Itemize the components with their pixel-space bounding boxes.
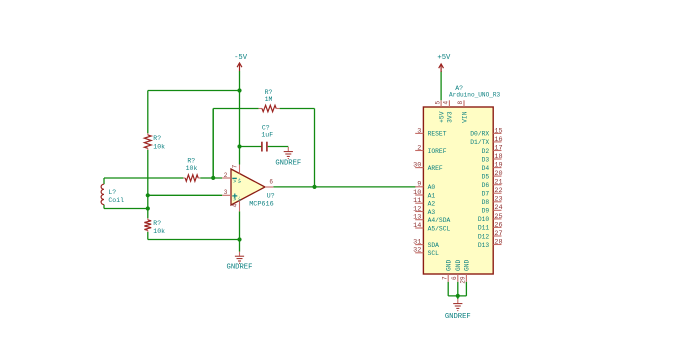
pin 2 (inverting input) <box>222 177 231 179</box>
pin 24 D9 (Arduino right) <box>482 204 503 214</box>
pin 5 +5V (Arduino top) <box>434 100 445 123</box>
svg-text:D0/RX: D0/RX <box>470 131 489 138</box>
svg-text:GND: GND <box>446 259 453 271</box>
ground GNDREF at op-amp <box>227 252 253 272</box>
wire cap right to GNDREF <box>268 146 289 148</box>
svg-text:25: 25 <box>494 213 502 221</box>
svg-text:18: 18 <box>494 153 502 161</box>
svg-text:5: 5 <box>434 101 441 105</box>
pin 13 A4/SDA (Arduino left) <box>413 214 450 224</box>
svg-text:4: 4 <box>443 101 450 105</box>
svg-text:D8: D8 <box>482 199 490 206</box>
svg-text:6: 6 <box>451 276 458 280</box>
ground GNDREF at capacitor <box>275 147 301 167</box>
wire feedback vertical right <box>314 109 316 187</box>
svg-text:L?: L? <box>108 189 116 196</box>
inductor L? Coil <box>101 184 124 204</box>
svg-text:1M: 1M <box>265 96 273 103</box>
svg-text:D6: D6 <box>482 182 490 189</box>
junction non-inverting node <box>146 193 150 197</box>
pin 17 D2 (Arduino right) <box>482 144 503 154</box>
pin 10 A1 (Arduino left) <box>413 189 435 199</box>
pin 3 RESET (Arduino left) <box>415 127 447 137</box>
pin 6 (output) <box>265 186 273 188</box>
svg-text:GND: GND <box>455 259 462 271</box>
svg-text:GNDREF: GNDREF <box>275 159 301 167</box>
pin 21 D6 (Arduino right) <box>482 179 503 189</box>
svg-text:31: 31 <box>413 239 421 247</box>
pin 22 D7 (Arduino right) <box>482 187 503 197</box>
svg-text:10: 10 <box>413 189 421 197</box>
ground GNDREF below Arduino <box>445 299 471 321</box>
pin 26 D11 (Arduino right) <box>478 221 503 231</box>
svg-text:GND: GND <box>464 259 471 271</box>
pin 23 D8 (Arduino right) <box>482 196 503 206</box>
wire Arduino GND pin 7 down <box>447 282 449 296</box>
svg-text:R?: R? <box>153 220 161 227</box>
wire left branch vertical bottom <box>147 232 149 240</box>
pin 20 D5 (Arduino right) <box>482 170 503 180</box>
svg-text:7: 7 <box>232 164 239 168</box>
wire -5V symbol down to junction <box>239 71 241 91</box>
pin 7 (V+) <box>239 165 241 174</box>
svg-text:19: 19 <box>494 162 502 170</box>
svg-text:A4/SDA: A4/SDA <box>428 217 451 224</box>
wire Arduino GND pin 29 down <box>465 282 467 296</box>
svg-text:15: 15 <box>494 127 502 135</box>
wire Arduino GND pin 6 down <box>457 282 459 296</box>
power symbol +5V <box>437 54 451 72</box>
wire left branch vertical top <box>147 91 149 134</box>
svg-text:IOREF: IOREF <box>428 148 447 155</box>
junction output node <box>312 185 316 189</box>
wire coil bottom horizontal <box>104 208 148 210</box>
svg-text:22: 22 <box>494 187 502 195</box>
pin 4 3V3 (Arduino top) <box>443 100 454 123</box>
svg-text:D10: D10 <box>478 216 490 223</box>
svg-text:SDA: SDA <box>428 242 440 249</box>
pin 2 IOREF (Arduino left) <box>415 144 447 154</box>
svg-text:A0: A0 <box>428 184 436 191</box>
pin 4 (V-) <box>239 201 241 212</box>
svg-text:AREF: AREF <box>428 165 443 172</box>
pin 25 D10 (Arduino right) <box>478 213 503 223</box>
wire feedback top left horizontal <box>213 108 258 110</box>
resistor R? 10k input (horizontal) <box>183 158 200 182</box>
svg-text:12: 12 <box>413 205 421 213</box>
svg-text:RESET: RESET <box>428 131 447 138</box>
pin 3 (non-inverting input) <box>222 194 231 196</box>
svg-text:24: 24 <box>494 204 502 212</box>
svg-text:11: 11 <box>413 197 421 205</box>
svg-text:2: 2 <box>224 172 228 179</box>
wire feedback vertical left <box>212 109 214 178</box>
svg-text:Arduino_UNO_R3: Arduino_UNO_R3 <box>449 92 501 99</box>
svg-text:30: 30 <box>413 162 421 170</box>
wire cap left <box>240 146 262 148</box>
pin 27 D12 (Arduino right) <box>478 230 503 240</box>
svg-text:21: 21 <box>494 179 502 187</box>
svg-text:17: 17 <box>494 144 502 152</box>
svg-text:14: 14 <box>413 222 421 230</box>
pin 16 D1/TX (Arduino right) <box>470 136 502 146</box>
svg-text:+5V: +5V <box>437 54 451 62</box>
svg-text:GNDREF: GNDREF <box>445 313 471 321</box>
power symbol -5V <box>234 54 248 71</box>
svg-text:-5V: -5V <box>234 54 248 62</box>
svg-text:23: 23 <box>494 196 502 204</box>
pin 19 D4 (Arduino right) <box>482 162 503 172</box>
svg-text:A2: A2 <box>428 201 436 208</box>
svg-text:D9: D9 <box>482 208 490 215</box>
svg-text:D5: D5 <box>482 173 490 180</box>
svg-text:3V3: 3V3 <box>447 111 454 123</box>
svg-text:9: 9 <box>417 181 421 189</box>
svg-text:A3: A3 <box>428 209 436 216</box>
op-amp U? MCP616 <box>222 164 275 211</box>
svg-text:V-: V- <box>239 196 243 201</box>
svg-text:4: 4 <box>232 203 239 207</box>
svg-text:8: 8 <box>457 101 464 105</box>
svg-text:10k: 10k <box>186 165 198 172</box>
svg-text:D11: D11 <box>478 225 490 232</box>
wire GND bus horizontal <box>448 295 466 297</box>
svg-text:MCP616: MCP616 <box>249 201 273 209</box>
svg-text:>: > <box>233 197 236 203</box>
pin 28 D13 (Arduino right) <box>478 238 503 248</box>
svg-text:10k: 10k <box>153 228 165 235</box>
svg-text:28: 28 <box>494 238 502 246</box>
pin 18 D3 (Arduino right) <box>482 153 503 163</box>
pin 31 SDA (Arduino left) <box>413 239 439 249</box>
wire op-amp output to Arduino A0 <box>273 186 415 188</box>
pin 32 SCL (Arduino left) <box>413 247 439 257</box>
svg-text:13: 13 <box>413 214 421 222</box>
pin 12 A3 (Arduino left) <box>413 205 435 215</box>
pin 15 D0/RX (Arduino right) <box>470 127 502 137</box>
svg-text:D12: D12 <box>478 233 490 240</box>
svg-text:C?: C? <box>262 124 270 131</box>
svg-text:20: 20 <box>494 170 502 178</box>
svg-text:3: 3 <box>224 189 228 196</box>
svg-text:26: 26 <box>494 221 502 229</box>
svg-text:VIN: VIN <box>461 111 468 123</box>
wire input resistor to op-amp pin 2 <box>200 177 222 179</box>
junction inverting input node <box>211 176 215 180</box>
svg-text:16: 16 <box>494 136 502 144</box>
pin 11 A2 (Arduino left) <box>413 197 435 207</box>
svg-text:R?: R? <box>265 89 273 96</box>
junction cap tap <box>237 144 241 148</box>
svg-text:Coil: Coil <box>108 197 124 204</box>
pin 8 VIN (Arduino top) <box>457 100 468 123</box>
resistor R? 10k top-left <box>144 133 165 150</box>
wire feedback top right horizontal <box>280 108 315 110</box>
svg-text:U?: U? <box>267 192 275 199</box>
junction -5V rail <box>237 88 241 92</box>
svg-text:>: > <box>233 179 236 185</box>
svg-text:+5V: +5V <box>438 111 445 123</box>
wire coil top to input resistor <box>104 177 183 179</box>
svg-text:6: 6 <box>269 179 273 186</box>
svg-text:29: 29 <box>460 276 467 284</box>
pin 9 A0 (Arduino left) <box>415 181 435 191</box>
pin 29 GND (Arduino bottom) <box>460 259 471 283</box>
svg-text:R?: R? <box>187 158 195 165</box>
svg-text:D2: D2 <box>482 148 490 155</box>
junction coil bottom node <box>146 206 150 210</box>
svg-text:D4: D4 <box>482 165 490 172</box>
capacitor C? 1uF <box>261 124 273 151</box>
svg-text:D13: D13 <box>478 242 490 249</box>
pin 6 GND (Arduino bottom) <box>451 259 462 281</box>
svg-text:2: 2 <box>417 144 421 152</box>
svg-text:R?: R? <box>153 135 161 142</box>
svg-text:7: 7 <box>441 276 448 280</box>
svg-text:V+: V+ <box>239 178 243 184</box>
pin 7 GND (Arduino bottom) <box>441 259 452 281</box>
wire top horizontal -5V rail <box>148 90 240 92</box>
wire bottom horizontal to op-amp V- net <box>148 239 240 241</box>
wire node to op-amp pin 3 <box>148 194 222 196</box>
wire -5V vertical down to op-amp V+ pin <box>239 91 241 165</box>
resistor R? 1M feedback <box>259 89 280 112</box>
svg-text:SCL: SCL <box>428 250 440 257</box>
svg-text:D3: D3 <box>482 156 490 163</box>
resistor R? 10k bottom-left <box>144 218 165 235</box>
wire +5V symbol to Arduino 5V pin <box>440 71 442 100</box>
wire GND bus to GNDREF <box>457 296 459 299</box>
svg-text:1uF: 1uF <box>261 132 273 139</box>
svg-text:27: 27 <box>494 230 502 238</box>
wire coil top corner vertical <box>103 178 105 184</box>
wire coil bottom vertical <box>103 205 105 209</box>
svg-text:D1/TX: D1/TX <box>470 139 489 146</box>
svg-text:GNDREF: GNDREF <box>227 264 253 272</box>
module A? Arduino_UNO_R3 <box>423 85 500 274</box>
svg-text:A5/SCL: A5/SCL <box>428 225 451 232</box>
pin 14 A5/SCL (Arduino left) <box>413 222 450 232</box>
svg-text:32: 32 <box>413 247 421 255</box>
svg-text:3: 3 <box>417 127 421 135</box>
pin 30 AREF (Arduino left) <box>413 162 443 172</box>
wire left branch vertical middle <box>147 150 149 218</box>
svg-text:A1: A1 <box>428 192 436 199</box>
junction GND bus <box>456 294 460 298</box>
wire op-amp V- pin to GNDREF <box>239 211 241 251</box>
svg-text:10k: 10k <box>153 144 165 151</box>
junction V- net <box>237 237 241 241</box>
svg-text:D7: D7 <box>482 191 490 198</box>
